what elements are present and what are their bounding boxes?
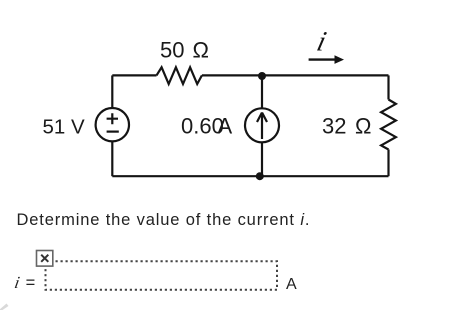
corner artifact mark — [0, 304, 9, 310]
clear button box with x — [37, 251, 53, 267]
svg-text:A: A — [286, 276, 297, 293]
wire: top-left horizontal segment — [112, 74, 156, 76]
svg-text:A: A — [218, 114, 233, 139]
svg-text:=: = — [26, 274, 36, 292]
current i arrow — [309, 58, 336, 60]
wire: left vertical top — [111, 75, 113, 108]
V1 minus sign — [107, 131, 119, 133]
svg-text:Ω: Ω — [193, 38, 209, 63]
wire: left vertical bottom — [111, 141, 113, 176]
current source I1 circle — [245, 108, 279, 142]
svg-text:Determine the value of the cur: Determine the value of the current i. — [17, 211, 311, 229]
resistor R1 50 ohm zigzag — [157, 67, 202, 84]
resistor R2 32 ohm zigzag — [381, 100, 396, 150]
I1 arrow — [257, 113, 267, 140]
wire: top horizontal right of R1 — [202, 74, 389, 76]
wire: right vertical bottom — [387, 150, 389, 177]
svg-text:Ω: Ω — [355, 114, 371, 139]
wire: node A to current source top — [261, 75, 263, 108]
svg-text:50: 50 — [160, 38, 184, 63]
node B junction dot — [256, 172, 264, 180]
answer input dashed box — [46, 261, 278, 290]
svg-text:32: 32 — [322, 114, 346, 139]
wire: bottom horizontal — [112, 175, 388, 177]
V1 plus sign — [107, 113, 118, 124]
voltage source V1 circle — [96, 108, 129, 141]
wire: right vertical top — [387, 75, 389, 99]
node A junction dot — [258, 72, 266, 80]
svg-text:51 V: 51 V — [43, 116, 85, 139]
wire: current source bottom to node B — [261, 142, 263, 176]
